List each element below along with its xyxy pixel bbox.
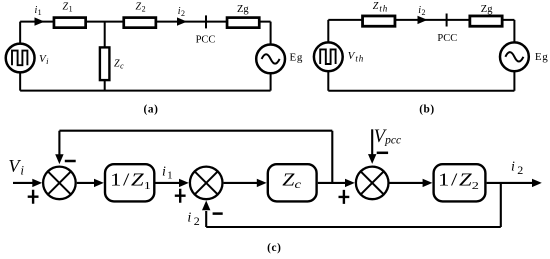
svg-text:(c): (c) (267, 242, 281, 254)
svg-text:PCC: PCC (437, 33, 457, 44)
svg-text:(a): (a) (144, 103, 159, 115)
svg-text:Zg: Zg (237, 4, 249, 15)
svg-text:i2: i2 (187, 211, 199, 228)
svg-text:PCC: PCC (196, 35, 216, 46)
svg-text:Eg: Eg (535, 51, 548, 63)
svg-text:Zg: Zg (481, 4, 493, 15)
svg-text:Eg: Eg (290, 52, 303, 64)
svg-text:Zth: Zth (373, 1, 388, 14)
svg-text:(b): (b) (419, 103, 435, 115)
svg-text:i2: i2 (511, 160, 523, 177)
